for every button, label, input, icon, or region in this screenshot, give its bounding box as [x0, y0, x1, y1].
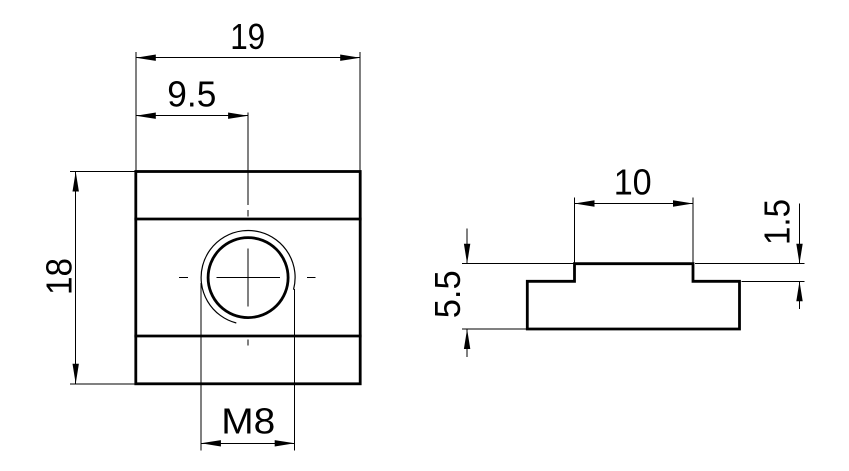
dimension 5.5: upper arrowhead pointing down [464, 244, 470, 264]
svg-text:10: 10 [614, 162, 652, 203]
dimension 19: extension lines [136, 52, 360, 172]
dimension M8: right arrowhead [275, 440, 295, 446]
dimension 10: right arrowhead [673, 200, 693, 206]
dimension M8: left arrowhead [201, 440, 221, 446]
left view: upper wing edge line [136, 218, 360, 221]
left view: thread major diameter arc [201, 231, 295, 323]
dimension 10: dimension line [575, 203, 694, 205]
dimension 18: top arrowhead [73, 172, 79, 192]
dimension 1.5: extension lines [695, 264, 805, 282]
dimension 1.5: lower arrowhead pointing up [796, 281, 802, 301]
dimension 18: dimension line [75, 172, 77, 384]
dimension 18: extension lines [70, 172, 136, 384]
svg-text:1.5: 1.5 [756, 199, 797, 245]
dimension 19: left arrowhead [136, 55, 156, 61]
svg-text:M8: M8 [221, 401, 275, 442]
dimension 5.5: lower arrowhead pointing up [464, 329, 470, 349]
dimension 19: right arrowhead [340, 55, 360, 61]
dimension 1.5: lower dimension line segment [799, 281, 801, 309]
dimension 1.5: upper arrowhead pointing down [796, 244, 802, 264]
svg-text:18: 18 [38, 258, 79, 295]
svg-text:5.5: 5.5 [427, 270, 468, 318]
dimension 9.5: right arrowhead [228, 113, 248, 119]
dimension M8: extension lines [201, 283, 295, 451]
right view: T-nut profile outline [527, 264, 739, 329]
dimension 9.5: dimension line [136, 115, 248, 117]
left view: vertical center line segments [247, 113, 249, 346]
dimension 5.5: extension lines [462, 264, 575, 329]
dimension 10: extension lines [575, 198, 694, 264]
dimension 19: dimension line [136, 57, 360, 59]
dimension M8: dimension line [201, 442, 295, 444]
left view: horizontal center line dashes [179, 277, 316, 279]
left view: tapped hole minor circle [208, 238, 288, 318]
left view: T-nut top view outer body [136, 172, 360, 384]
dimension 18: bottom arrowhead [73, 364, 79, 384]
svg-text:19: 19 [230, 16, 265, 57]
dimension 5.5: lower dimension line segment [466, 329, 468, 357]
dimension 9.5: left arrowhead [136, 113, 156, 119]
dimension 1.5: upper dimension line segment [799, 203, 801, 263]
left view: lower wing edge line [136, 335, 360, 338]
dimension 5.5: upper dimension line segment [466, 229, 468, 264]
svg-text:9.5: 9.5 [167, 74, 216, 115]
dimension 10: left arrowhead [575, 200, 595, 206]
